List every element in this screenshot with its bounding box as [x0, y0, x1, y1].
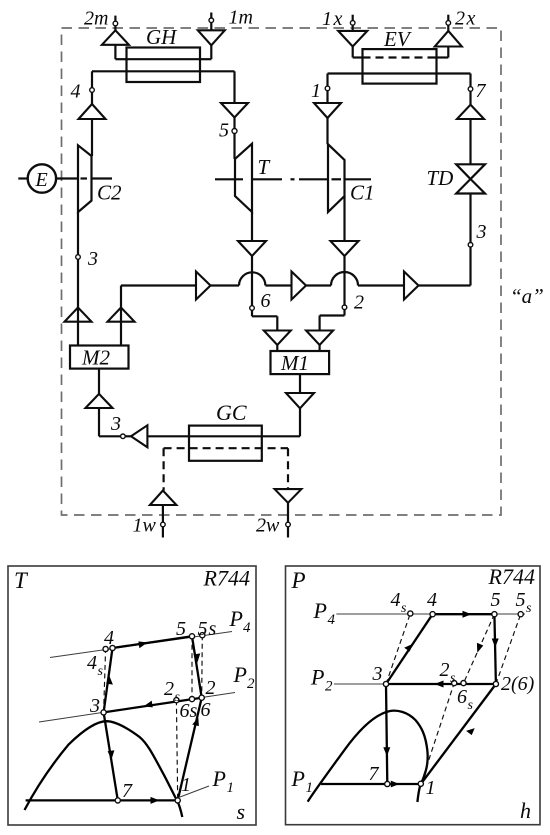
svg-text:P: P: [291, 568, 306, 593]
svg-text:2: 2: [247, 676, 255, 692]
svg-text:h: h: [520, 798, 531, 823]
node 1: [311, 80, 330, 102]
svg-text:E: E: [35, 169, 48, 191]
wire GH to node 4: [92, 71, 127, 87]
svg-text:2: 2: [325, 679, 333, 695]
svg-text:GC: GC: [216, 400, 247, 425]
throttling device TD: [427, 164, 486, 193]
P-h point 7: [369, 763, 390, 787]
wire EV to node 1: [328, 74, 363, 87]
wire compressor C2 inlet: [77, 212, 79, 255]
svg-text:“a”: “a”: [510, 284, 544, 308]
T-s point 7: [115, 780, 133, 803]
T-s isentrope 2s to 1 dashed: [176, 700, 177, 800]
T-s point 6s: [180, 697, 198, 723]
T-s process 5 to 6 with arrow: [192, 636, 202, 697]
svg-text:1m: 1m: [229, 7, 253, 29]
wire M1 bottom to GC with flow arrow: [286, 374, 314, 436]
svg-text:5: 5: [219, 120, 229, 142]
compressor C1: [328, 144, 375, 212]
P-h isobar P2 line: [310, 665, 496, 695]
wire node 4 to compressor C2 with flow arrow: [79, 92, 106, 156]
svg-text:s: s: [450, 671, 456, 686]
svg-text:5: 5: [176, 618, 186, 640]
svg-text:3: 3: [372, 663, 383, 685]
P-h process 1 to 2 with arrow: [421, 684, 496, 784]
T-s diagram box: [8, 566, 256, 826]
wire node 2 to mixer M1 with flow arrow: [306, 310, 344, 351]
svg-text:GH: GH: [146, 25, 178, 49]
P-h point 1: [418, 777, 435, 799]
P-h isobar P1 label: [291, 766, 314, 796]
P-h isobar P4 process 4 to 5 with arrow: [433, 611, 495, 618]
stream 1x inlet arm: [322, 8, 367, 58]
gas cooler GC: [189, 400, 262, 461]
wire node 3 right down to main header: [469, 247, 471, 285]
node 2: [342, 292, 364, 314]
wire TD to node 3 right: [469, 194, 471, 243]
wire node 6 to mixer M1 with flow arrow: [252, 310, 291, 351]
P-h point 2s: [440, 659, 457, 686]
svg-text:C1: C1: [350, 181, 375, 205]
T-s isentrope 3 to 4s dashed: [104, 649, 106, 712]
mixer M1: [271, 351, 330, 375]
svg-text:6s: 6s: [180, 700, 198, 722]
svg-text:R744: R744: [203, 566, 250, 591]
svg-text:2: 2: [164, 678, 174, 700]
P-h isobar P4 line: [313, 598, 526, 628]
P-h point 4s: [391, 589, 413, 616]
T-s point 1: [175, 774, 191, 803]
wire GC to node 3b with left flow arrow: [125, 425, 300, 447]
svg-text:R744: R744: [488, 564, 535, 589]
svg-text:4: 4: [243, 620, 251, 636]
svg-text:4: 4: [328, 612, 336, 628]
node 3 right: [468, 221, 486, 247]
wire node 1 to compressor C1 with flow arrow: [314, 91, 341, 145]
wire compressor C1 outlet with flow arrow: [331, 196, 359, 305]
svg-text:1x: 1x: [322, 8, 344, 30]
T-s process 2 to 3 with arrow: [104, 698, 202, 713]
svg-text:4: 4: [87, 652, 97, 674]
P-h process 3 to 7 with arrow: [383, 684, 390, 784]
T-s point 5: [176, 618, 195, 640]
svg-text:T: T: [258, 155, 271, 179]
wire M2 up to node 3 left with flow arrow: [65, 259, 92, 345]
T-s point 4: [104, 627, 115, 651]
svg-text:1: 1: [311, 80, 321, 102]
T-s point 4s: [87, 646, 108, 679]
P-h point 5s: [516, 589, 533, 617]
svg-text:2: 2: [440, 659, 450, 681]
shaft centerline T to C1 dash-dot: [215, 178, 371, 180]
node 6: [250, 290, 271, 312]
svg-text:3: 3: [110, 413, 121, 435]
mixer M2: [70, 346, 129, 370]
P-h isentrope 2 to 5s dashed: [496, 614, 521, 684]
svg-text:4: 4: [427, 589, 437, 611]
P-h process 3 to 4 with arrow: [386, 614, 433, 684]
svg-text:s: s: [401, 601, 407, 616]
svg-text:1: 1: [426, 777, 436, 799]
svg-text:T: T: [14, 568, 29, 593]
node 4: [71, 81, 95, 103]
svg-text:P: P: [291, 766, 305, 791]
svg-text:3: 3: [89, 695, 100, 717]
wire node 7 to valve TD with flow arrow: [457, 91, 484, 164]
svg-text:P: P: [310, 665, 324, 690]
wire M2 bottom to node 3b with flow arrow: [86, 369, 121, 437]
T-s point 3: [89, 695, 106, 717]
svg-text:P: P: [229, 606, 243, 631]
T-s isobar P1 process 7 to 1 with arrow: [26, 797, 178, 804]
stream 2w outlet arm: [256, 489, 301, 537]
svg-text:4: 4: [104, 627, 114, 649]
heat exchanger EV: [363, 27, 437, 84]
svg-text:2(6): 2(6): [501, 673, 535, 695]
svg-text:s: s: [98, 664, 104, 679]
T-s process 1 to 2 with arrow: [178, 698, 202, 801]
P-h saturation dome: [308, 711, 428, 802]
electric motor E: [18, 164, 56, 192]
T-s point 2s: [164, 678, 181, 705]
stream 2m outlet arm: [84, 8, 129, 60]
svg-text:7: 7: [369, 763, 380, 785]
svg-text:1: 1: [306, 780, 314, 796]
svg-text:2: 2: [354, 292, 364, 314]
svg-text:P: P: [233, 662, 247, 687]
svg-text:M2: M2: [81, 346, 110, 370]
svg-text:6: 6: [261, 290, 271, 312]
T-s isobar P1 label pointer: [180, 766, 234, 797]
P-h isentrope 3 to 4s dashed: [386, 614, 410, 685]
svg-text:5s: 5s: [198, 618, 218, 640]
P-h point 6s: [457, 681, 474, 714]
svg-text:1: 1: [181, 774, 191, 796]
wire GH to node 5 with flow arrow: [200, 71, 248, 128]
P-h isobar P2 process 2 to 3 with arrow: [386, 681, 496, 688]
T-s process 3 to 4 with arrow: [104, 648, 113, 712]
svg-text:2m: 2m: [84, 8, 108, 30]
turbine T: [235, 144, 271, 212]
P-h point 4: [427, 589, 437, 617]
T-s process 4 to 5 with arrow: [113, 636, 193, 648]
svg-text:6: 6: [201, 699, 211, 721]
system boundary dashed border "a": [62, 28, 502, 515]
compressor C2: [78, 145, 122, 212]
svg-text:4: 4: [71, 81, 81, 103]
svg-text:s: s: [526, 601, 532, 616]
stream 1w inlet arm: [133, 491, 177, 538]
svg-text:2w: 2w: [256, 515, 280, 537]
svg-text:4: 4: [391, 589, 401, 611]
node 5: [219, 120, 237, 142]
svg-text:P: P: [313, 598, 327, 623]
heat exchanger GH: [127, 25, 201, 82]
svg-text:1: 1: [227, 780, 235, 796]
P-h isentrope 1 to 2s dashed: [421, 683, 454, 784]
svg-text:3: 3: [476, 221, 487, 243]
label "a": [510, 284, 544, 308]
svg-text:2x: 2x: [455, 8, 477, 30]
water circuit dashed wire in GC: [164, 448, 288, 490]
svg-text:TD: TD: [427, 166, 454, 190]
svg-text:5: 5: [491, 589, 501, 611]
svg-text:3: 3: [87, 248, 98, 270]
svg-text:P: P: [212, 766, 226, 791]
stream 2x outlet arm: [435, 8, 477, 58]
svg-text:1w: 1w: [133, 515, 157, 537]
T-s point 2 coincident 6: [199, 677, 215, 721]
T-s saturation dome: [25, 721, 183, 817]
svg-text:C2: C2: [97, 181, 122, 205]
svg-text:M1: M1: [280, 351, 309, 375]
svg-text:7: 7: [122, 780, 133, 802]
T-s point 5s: [198, 618, 218, 640]
svg-text:s: s: [237, 799, 246, 824]
wire turbine T outlet with flow arrow: [238, 212, 266, 306]
P-h isobar P1 process 7 to 1 with arrow: [321, 781, 421, 788]
P-h isentrope 5 to 6s dashed with arrow: [464, 614, 495, 683]
main header wire M2 to TD with flow arrows: [121, 272, 471, 300]
T-s process 3 to 7 with arrow: [104, 712, 118, 800]
svg-text:7: 7: [476, 80, 487, 102]
T-s isentrope 5s to 2 dashed: [201, 635, 204, 698]
P-h diagram box: [286, 564, 541, 825]
stream 1m inlet arm: [198, 7, 253, 60]
P-h point 5: [491, 589, 501, 617]
T-s isobar P2 line: [39, 662, 255, 722]
svg-text:EV: EV: [383, 27, 412, 51]
P-h process 5 to 2 with arrow: [492, 614, 499, 684]
shaft E to C2: [56, 177, 112, 179]
svg-text:s: s: [468, 698, 474, 713]
node 3 bottom: [110, 413, 125, 439]
T-s isentrope 5 to 6s dashed: [191, 636, 193, 699]
svg-text:5: 5: [516, 589, 526, 611]
wire node 5 to turbine T: [233, 134, 235, 159]
node 7: [468, 80, 486, 102]
wire EV to node 7: [437, 74, 471, 87]
wire M2 up to main header with flow arrow: [108, 286, 135, 346]
P-h point 3: [372, 663, 389, 687]
T-s isobar P4 line: [50, 606, 251, 658]
node 3 left: [76, 248, 98, 270]
svg-text:2: 2: [206, 677, 216, 699]
svg-text:6: 6: [457, 686, 467, 708]
P-h point 2 coincident 6: [493, 673, 534, 695]
